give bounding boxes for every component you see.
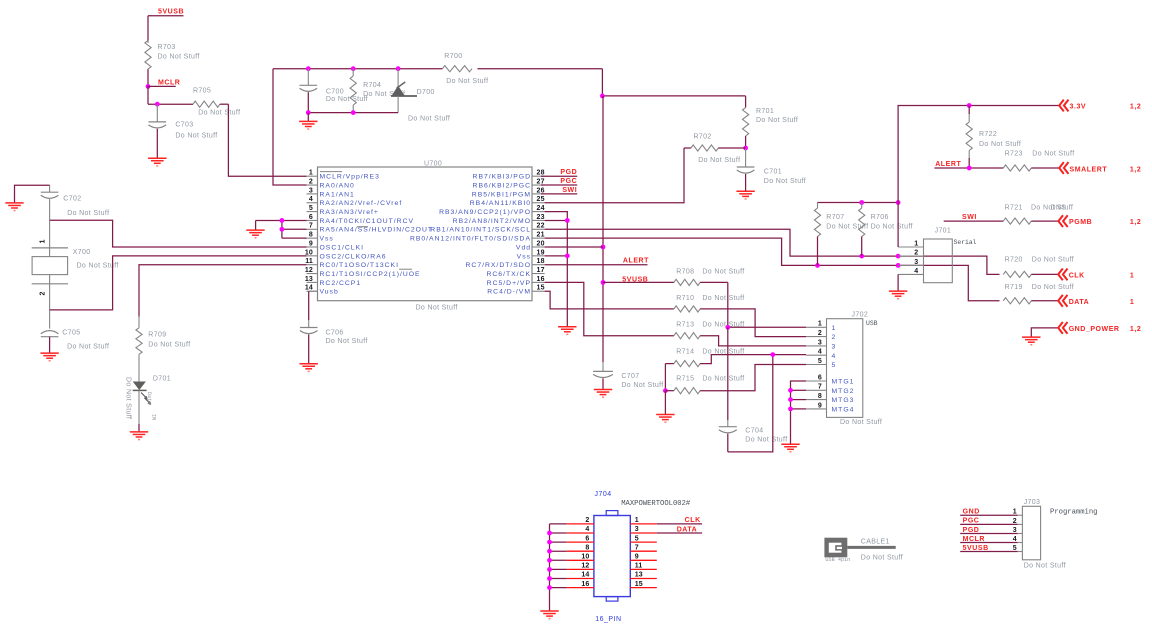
svg-text:IN: IN: [151, 414, 157, 420]
svg-text:R705: R705: [193, 88, 211, 95]
connector CABLE1 (USB cable icon): [824, 538, 903, 563]
svg-text:R714: R714: [676, 348, 694, 355]
pin 17 stub: [486, 267, 544, 278]
svg-text:CLK: CLK: [685, 517, 701, 524]
svg-text:Do Not Stuff: Do Not Stuff: [148, 341, 190, 348]
svg-text:20: 20: [537, 240, 545, 247]
svg-text:PGMB: PGMB: [1069, 219, 1092, 226]
junction D700 top: [396, 66, 401, 71]
svg-text:25: 25: [537, 196, 545, 203]
svg-text:6: 6: [585, 535, 589, 542]
svg-text:C700: C700: [326, 89, 344, 96]
svg-text:19: 19: [537, 249, 545, 256]
pin 18 stub: [466, 258, 545, 269]
svg-text:SMALERT: SMALERT: [1070, 166, 1108, 173]
node CLK (J704): [657, 517, 702, 524]
resistor R705: [193, 88, 240, 117]
svg-text:13: 13: [305, 276, 313, 283]
ground (J704): [540, 611, 558, 619]
svg-text:Do Not Stuff: Do Not Stuff: [702, 295, 744, 302]
svg-text:3: 3: [914, 259, 918, 266]
junction Vdd tap: [601, 245, 606, 250]
svg-text:Do Not Stuff: Do Not Stuff: [840, 419, 882, 426]
svg-text:R709: R709: [148, 331, 166, 338]
connector J701: [924, 227, 977, 282]
svg-text:Do Not Stuff: Do Not Stuff: [861, 555, 903, 562]
svg-text:9: 9: [635, 554, 639, 561]
svg-text:1: 1: [1130, 273, 1134, 280]
wire pins6-8 to ground: [256, 218, 307, 238]
svg-text:RC7/RX/DT/SDO: RC7/RX/DT/SDO: [466, 262, 532, 269]
J702 pin 6 (MTG1): [806, 374, 854, 385]
svg-text:R713: R713: [676, 322, 694, 329]
J701 pin 4: [898, 268, 923, 275]
svg-text:1: 1: [1130, 299, 1134, 306]
svg-text:4: 4: [1013, 536, 1017, 543]
wire C702 to ground: [15, 185, 50, 202]
svg-text:J702: J702: [852, 311, 869, 318]
svg-text:Do Not Stuff: Do Not Stuff: [408, 116, 450, 123]
svg-text:2: 2: [914, 250, 918, 257]
wire R702 to pin25: [545, 148, 684, 203]
J702 pin 8 (MTG3): [806, 393, 854, 404]
pin 10 stub: [305, 249, 387, 260]
svg-text:1: 1: [635, 517, 639, 524]
junction C703 tap: [155, 102, 160, 107]
J703 pin 2 (PGC): [960, 518, 1022, 525]
svg-text:16: 16: [581, 581, 589, 588]
svg-text:24: 24: [537, 205, 545, 212]
junction 5VUSB row tap: [601, 280, 606, 285]
wire pin22 CLK net: [545, 229, 1000, 274]
wire OSC2 net: [50, 256, 307, 310]
svg-text:MCLR: MCLR: [963, 536, 985, 543]
svg-text:17: 17: [537, 267, 545, 274]
svg-text:RC4/D-/VM: RC4/D-/VM: [487, 289, 531, 296]
svg-text:8: 8: [309, 232, 313, 239]
svg-text:Do Not Stuff: Do Not Stuff: [702, 268, 744, 275]
svg-text:1: 1: [40, 239, 47, 243]
svg-text:USB: USB: [866, 320, 878, 327]
pin 6 stub: [307, 214, 415, 225]
resistor R714: [665, 348, 744, 366]
svg-text:PGD: PGD: [560, 169, 577, 176]
svg-text:5: 5: [635, 535, 639, 542]
svg-text:C706: C706: [326, 329, 344, 336]
svg-text:7: 7: [309, 223, 313, 230]
svg-text:Do Not Stuff: Do Not Stuff: [198, 110, 240, 117]
svg-text:X700: X700: [73, 249, 91, 256]
pin 13 stub: [305, 276, 361, 287]
pin 12 stub: [305, 267, 421, 278]
svg-text:Do Not Stuff: Do Not Stuff: [756, 117, 798, 124]
svg-text:Do Not Stuff: Do Not Stuff: [67, 210, 109, 217]
svg-text:R715: R715: [676, 375, 694, 382]
svg-text:Programming: Programming: [1050, 509, 1097, 517]
pin 28 stub: [473, 170, 545, 181]
svg-text:R708: R708: [676, 268, 694, 275]
capacitor C704: [719, 420, 788, 452]
pin 19 stub: [517, 249, 545, 260]
J704 pin 5: [630, 535, 657, 542]
svg-text:Do Not Stuff: Do Not Stuff: [416, 305, 458, 312]
resistor R710: [545, 291, 745, 312]
svg-text:MAXPOWERTOOL002#: MAXPOWERTOOL002#: [621, 500, 691, 508]
svg-text:RC2/CCP1: RC2/CCP1: [320, 280, 362, 287]
svg-text:27: 27: [537, 178, 545, 185]
svg-text:R700: R700: [444, 53, 462, 60]
svg-text:RA2/AN2/Vref-/CVref: RA2/AN2/Vref-/CVref: [320, 200, 403, 207]
wire C704 bottom loop: [728, 355, 773, 452]
svg-text:Do Not Stuff: Do Not Stuff: [326, 338, 368, 345]
svg-text:Vdd: Vdd: [516, 244, 531, 251]
svg-text:ALERT: ALERT: [623, 258, 649, 265]
wire rail to R701: [600, 69, 746, 99]
ground (C700): [299, 121, 317, 129]
J701 pin 2: [898, 250, 923, 257]
capacitor C700: [300, 69, 369, 113]
wire pin21 DATA net: [545, 238, 1000, 301]
wire R714 to J702 pin4: [700, 352, 806, 363]
diode D701 (LED): [125, 354, 172, 431]
svg-text:1: 1: [1013, 509, 1017, 516]
resistor R715: [663, 364, 745, 394]
pin 16 stub: [487, 276, 545, 287]
J703 pin 5 (5VUSB): [960, 545, 1022, 552]
pin 25 stub: [470, 196, 545, 207]
J704 pin 16: [567, 581, 594, 588]
svg-text:1: 1: [818, 321, 822, 328]
svg-text:Serial: Serial: [954, 239, 977, 246]
svg-text:RB6/KBI2/PGC: RB6/KBI2/PGC: [473, 182, 531, 189]
ground (C707): [594, 390, 612, 398]
J704 pin 8: [567, 544, 594, 551]
svg-text:RC5/D+/VP: RC5/D+/VP: [487, 280, 531, 287]
wire J704 left bus to ground: [547, 524, 567, 611]
svg-text:7: 7: [635, 544, 639, 551]
resistor R702: [684, 134, 746, 164]
J704 pin 3: [630, 526, 657, 533]
svg-text:21: 21: [537, 232, 545, 239]
resistor R713: [545, 282, 745, 338]
svg-text:Do Not Stuff: Do Not Stuff: [175, 133, 217, 140]
J701 pin 3: [898, 259, 923, 266]
svg-text:Do Not Stuff: Do Not Stuff: [702, 322, 744, 329]
svg-text:MCLR: MCLR: [158, 79, 180, 86]
node ALERT / resistor R723 / SMALERT: [934, 151, 1141, 174]
connector J703: [1022, 499, 1097, 569]
svg-text:D700: D700: [417, 89, 435, 96]
connector J704: [594, 491, 691, 623]
svg-text:Do Not Stuff: Do Not Stuff: [67, 343, 109, 350]
svg-text:Do Not Stuff: Do Not Stuff: [125, 377, 132, 419]
svg-text:RB7/KBI3/PGD: RB7/KBI3/PGD: [473, 174, 531, 181]
node SWI / resistor R721 / PGMB: [944, 205, 1142, 228]
svg-text:RC0/T1OSO/T13CKI: RC0/T1OSO/T13CKI: [320, 262, 399, 269]
svg-text:R719: R719: [1005, 284, 1023, 291]
svg-text:U700: U700: [424, 160, 442, 167]
J704 pin 15: [630, 581, 657, 588]
svg-text:Do Not Stuff: Do Not Stuff: [764, 178, 806, 185]
resistor R704: [350, 69, 405, 113]
node DATA (J704): [657, 526, 702, 533]
svg-text:1: 1: [914, 240, 918, 247]
ground (C706): [300, 364, 318, 372]
svg-text:Do Not Stuff: Do Not Stuff: [979, 141, 1021, 148]
J704 pin 1: [630, 517, 657, 524]
J704 pin 7: [630, 544, 657, 551]
svg-text:MCLR/Vpp/RE3: MCLR/Vpp/RE3: [320, 174, 380, 181]
wire MTG ground net: [788, 381, 806, 444]
svg-text:D701: D701: [153, 376, 171, 383]
J704 pin 6: [567, 535, 594, 542]
svg-text:28: 28: [537, 170, 545, 177]
resistor R709: [136, 317, 191, 355]
svg-text:Vss: Vss: [517, 253, 531, 260]
svg-text:2: 2: [40, 291, 47, 295]
svg-text:J703: J703: [1024, 499, 1041, 506]
ground (D701): [130, 432, 148, 440]
svg-text:3.3V: 3.3V: [1070, 104, 1087, 111]
resistor R707: [814, 203, 868, 266]
svg-text:Do Not Stuff: Do Not Stuff: [158, 54, 200, 61]
svg-text:R703: R703: [158, 44, 176, 51]
svg-text:5VUSB: 5VUSB: [158, 9, 184, 16]
svg-text:10: 10: [581, 554, 589, 561]
ground (R714/R715): [656, 415, 674, 423]
svg-text:RB5/KBI1/PGM: RB5/KBI1/PGM: [472, 191, 531, 198]
svg-text:3: 3: [635, 526, 639, 533]
J702 pin 7 (MTG2): [806, 384, 854, 395]
svg-text:DNS: DNS: [1051, 205, 1067, 212]
svg-text:26: 26: [537, 187, 545, 194]
svg-text:R704: R704: [363, 82, 381, 89]
svg-text:R710: R710: [676, 295, 694, 302]
resistor R708: [603, 268, 745, 285]
pin 8 stub: [307, 232, 334, 243]
svg-text:5: 5: [832, 362, 837, 369]
svg-text:1: 1: [309, 170, 313, 177]
svg-text:CLK: CLK: [1069, 273, 1085, 280]
svg-text:PGD: PGD: [963, 527, 980, 534]
J703 pin 3 (PGD): [960, 527, 1022, 534]
wire pins24-23-19 ground net: [545, 212, 570, 327]
diode D700 (zener): [391, 69, 450, 123]
overbar UOE: [399, 268, 412, 270]
wire Vdd pin20: [545, 246, 603, 248]
svg-text:USB 4pin: USB 4pin: [825, 557, 850, 563]
svg-text:1,2: 1,2: [1130, 326, 1141, 333]
J704 pin 4: [567, 526, 594, 533]
svg-text:2: 2: [832, 334, 837, 341]
svg-text:Do Not Stuff: Do Not Stuff: [326, 96, 368, 103]
node GND_POWER: [1031, 322, 1141, 337]
svg-text:4: 4: [818, 349, 822, 356]
svg-text:Vusb: Vusb: [320, 289, 339, 296]
wire 5VUSB top rail: [273, 69, 602, 185]
pin 4 stub: [307, 196, 403, 207]
pin 3 stub: [307, 187, 355, 198]
svg-text:Do Not Stuff: Do Not Stuff: [1024, 563, 1066, 570]
ground (MTG): [781, 444, 799, 452]
resistor R720 / CLK: [1003, 257, 1134, 281]
svg-text:OSC2/CLKO/RA6: OSC2/CLKO/RA6: [320, 253, 387, 260]
pin 14 stub: [305, 285, 339, 296]
junction C700 top: [306, 66, 311, 71]
svg-text:3: 3: [1013, 527, 1017, 534]
capacitor C702: [41, 185, 110, 220]
pin 7 stub: [307, 223, 434, 234]
svg-text:MTG4: MTG4: [832, 407, 855, 414]
svg-text:4: 4: [832, 353, 837, 360]
svg-text:9: 9: [818, 402, 822, 409]
wire OSC1 net: [50, 220, 307, 247]
J702 pin 4: [806, 349, 836, 360]
svg-text:Data: Data: [146, 392, 152, 404]
J704 pin 2: [567, 517, 594, 524]
pin 21 stub: [410, 232, 545, 243]
svg-text:RB1/AN10/INT1/SCK/SCL: RB1/AN10/INT1/SCK/SCL: [430, 227, 531, 234]
J704 pin 11: [630, 563, 657, 570]
J703 pin 4 (MCLR): [960, 536, 1022, 543]
resistor R719 / DATA: [1003, 284, 1134, 307]
svg-text:5: 5: [818, 358, 822, 365]
ground (C702): [5, 203, 23, 211]
svg-text:C704: C704: [745, 428, 763, 435]
ground (J701): [889, 291, 907, 299]
node ALERT (pin18): [545, 258, 650, 265]
wire R710 to J702 pin2: [700, 309, 806, 337]
pin 26 stub: [472, 187, 545, 198]
svg-text:6: 6: [818, 374, 822, 381]
svg-text:GND: GND: [963, 509, 980, 516]
J704 pin 12: [567, 563, 594, 570]
svg-text:12: 12: [305, 267, 313, 274]
node PGC: [541, 178, 577, 185]
wire R705 to pin1: [228, 104, 306, 176]
svg-text:5: 5: [309, 205, 313, 212]
svg-text:RA4/T0CKI/C1OUT/RCV: RA4/T0CKI/C1OUT/RCV: [320, 218, 415, 225]
svg-text:R723: R723: [1005, 151, 1023, 158]
node SWI: [541, 187, 577, 194]
capacitor C707: [593, 371, 664, 389]
svg-text:Vss: Vss: [320, 236, 334, 243]
wire pin11 to R709: [139, 265, 307, 317]
svg-text:Do Not Stuff: Do Not Stuff: [1032, 284, 1074, 291]
ground (C703): [148, 158, 166, 166]
node MCLR: [146, 79, 181, 88]
pin 22 stub: [430, 223, 544, 234]
svg-text:2: 2: [818, 330, 822, 337]
svg-text:R707: R707: [826, 214, 844, 221]
J703 pin 1 (GND): [960, 509, 1022, 516]
wire bottom rail C700/R704/D700: [306, 110, 398, 121]
svg-text:4: 4: [309, 196, 313, 203]
pin 15 stub: [487, 285, 544, 296]
svg-text:9: 9: [309, 240, 313, 247]
svg-text:2: 2: [309, 178, 313, 185]
svg-text:2: 2: [585, 517, 589, 524]
svg-text:PGC: PGC: [560, 178, 577, 185]
svg-text:22: 22: [537, 223, 545, 230]
junction R704 top: [351, 66, 356, 71]
capacitor C706: [300, 291, 368, 363]
svg-text:16: 16: [537, 276, 545, 283]
svg-text:RB4/AN11/KBI0: RB4/AN11/KBI0: [470, 200, 531, 207]
svg-text:R706: R706: [871, 214, 889, 221]
op-amp U700 (MCU box): [318, 160, 533, 311]
svg-text:1,2: 1,2: [1130, 219, 1141, 226]
connector J702: [827, 311, 883, 426]
svg-text:10: 10: [305, 249, 313, 256]
crystal X700: [32, 220, 119, 295]
svg-text:3: 3: [818, 339, 822, 346]
svg-text:12: 12: [581, 563, 589, 570]
svg-text:13: 13: [635, 572, 643, 579]
capacitor C705: [41, 310, 110, 353]
ground (pins 6-8): [246, 230, 264, 238]
svg-text:RB3/AN9/CCP2(1)/VPO: RB3/AN9/CCP2(1)/VPO: [439, 209, 531, 216]
pin 2 stub: [307, 178, 355, 189]
svg-text:C702: C702: [63, 196, 81, 203]
wire MCLR to R705: [147, 86, 149, 104]
svg-text:3: 3: [309, 187, 313, 194]
capacitor C701: [737, 148, 806, 191]
svg-text:1,2: 1,2: [1130, 166, 1141, 173]
svg-text:SWI: SWI: [562, 187, 577, 194]
svg-text:11: 11: [305, 258, 313, 265]
svg-text:RB2/AN8/INT2/VMO: RB2/AN8/INT2/VMO: [453, 218, 531, 225]
J702 pin 1: [806, 321, 836, 332]
svg-text:14: 14: [581, 572, 589, 579]
J702 pin 5: [806, 358, 836, 369]
svg-text:RA1/AN1: RA1/AN1: [320, 191, 355, 198]
svg-text:5VUSB: 5VUSB: [963, 545, 989, 552]
capacitor C703: [149, 104, 218, 158]
svg-text:2: 2: [1013, 518, 1017, 525]
svg-text:GND_POWER: GND_POWER: [1069, 326, 1120, 333]
svg-text:C705: C705: [62, 329, 80, 336]
wire R714/R715 to ground: [664, 391, 666, 415]
J702 pin 9 (MTG4): [806, 402, 854, 413]
wire R713 to J702 pin3: [700, 336, 806, 346]
svg-text:DATA: DATA: [677, 526, 698, 533]
resistor R703: [145, 16, 200, 87]
wire R715 to J702 pin5: [700, 365, 806, 391]
pin 11 stub: [305, 258, 399, 269]
overbar MCLR: [320, 171, 342, 173]
svg-text:Do Not Stuff: Do Not Stuff: [1032, 151, 1074, 158]
wire 5VUSB vertical: [602, 96, 604, 372]
svg-text:23: 23: [537, 214, 545, 221]
svg-text:DATA: DATA: [1069, 299, 1090, 306]
svg-text:Do Not Stuff: Do Not Stuff: [446, 78, 488, 85]
node 5VUSB (top): [148, 9, 184, 16]
ground (GND_POWER): [1022, 337, 1040, 345]
svg-text:Do Not Stuff: Do Not Stuff: [1032, 257, 1074, 264]
J704 pin 10: [567, 554, 594, 561]
resistor R700: [442, 53, 488, 85]
ground (C705): [40, 353, 58, 361]
svg-text:C703: C703: [175, 122, 193, 129]
pin 9 stub: [307, 240, 365, 251]
resistor R701: [743, 96, 799, 148]
svg-text:RA0/AN0: RA0/AN0: [320, 182, 355, 189]
J701 pin 1: [898, 240, 923, 247]
pin 24 stub: [439, 205, 545, 216]
svg-text:R701: R701: [756, 108, 774, 115]
svg-text:3: 3: [832, 344, 837, 351]
